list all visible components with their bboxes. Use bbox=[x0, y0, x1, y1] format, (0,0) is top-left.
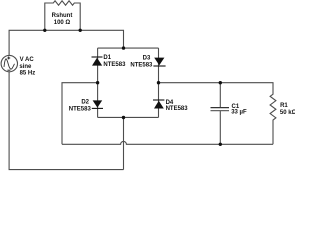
svg-text:D4: D4 bbox=[166, 100, 174, 106]
svg-text:NTE583: NTE583 bbox=[166, 106, 189, 112]
svg-text:V AC: V AC bbox=[20, 57, 35, 63]
svg-text:D1: D1 bbox=[103, 55, 111, 61]
svg-text:NTE583: NTE583 bbox=[130, 62, 153, 68]
svg-text:D2: D2 bbox=[81, 100, 89, 106]
svg-text:85 Hz: 85 Hz bbox=[20, 70, 36, 76]
svg-text:D3: D3 bbox=[143, 55, 151, 61]
svg-text:50 kΩ: 50 kΩ bbox=[280, 110, 295, 116]
svg-text:100 Ω: 100 Ω bbox=[54, 20, 71, 26]
svg-text:NTE583: NTE583 bbox=[69, 106, 92, 112]
svg-text:sine: sine bbox=[19, 64, 32, 70]
svg-text:NTE583: NTE583 bbox=[103, 62, 126, 68]
svg-text:Rshunt: Rshunt bbox=[52, 13, 73, 19]
svg-text:33 µF: 33 µF bbox=[231, 110, 247, 116]
svg-text:R1: R1 bbox=[280, 103, 288, 109]
